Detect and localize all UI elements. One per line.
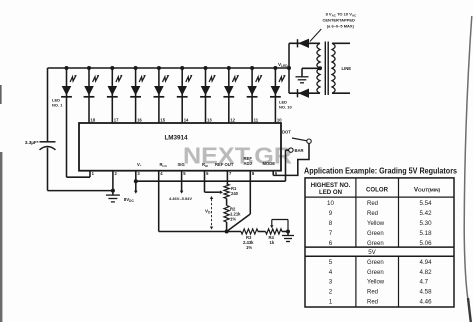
svg-text:NO. 1: NO. 1 [52, 102, 63, 107]
svg-text:5.06: 5.06 [420, 240, 433, 247]
svg-text:3: 3 [329, 279, 333, 286]
svg-text:Red: Red [367, 290, 378, 296]
svg-text:7: 7 [229, 171, 232, 176]
svg-text:5.54: 5.54 [420, 200, 433, 207]
svg-text:LM3914: LM3914 [164, 135, 188, 142]
svg-text:2: 2 [329, 289, 333, 296]
svg-text:14: 14 [184, 117, 189, 122]
svg-text:9: 9 [329, 210, 333, 217]
svg-text:NEXT.GR: NEXT.GR [183, 143, 292, 169]
svg-text:15: 15 [160, 117, 165, 122]
svg-text:Yellow: Yellow [367, 280, 385, 286]
svg-text:12: 12 [230, 117, 235, 122]
svg-text:RLO: RLO [160, 162, 168, 168]
svg-text:4.94: 4.94 [420, 259, 433, 266]
svg-text:17: 17 [114, 117, 119, 122]
svg-text:Red: Red [367, 300, 378, 306]
svg-text:4.7: 4.7 [420, 279, 429, 286]
svg-text:LINE: LINE [342, 66, 352, 71]
svg-text:5.42: 5.42 [420, 210, 433, 217]
svg-text:LED ON: LED ON [319, 189, 342, 196]
svg-text:7: 7 [329, 230, 333, 237]
svg-text:3.3µF*: 3.3µF* [25, 140, 39, 145]
svg-text:RHI: RHI [202, 162, 208, 168]
svg-text:VD: VD [205, 209, 211, 215]
svg-text:Green: Green [367, 270, 384, 276]
svg-text:11: 11 [254, 117, 259, 122]
svg-text:5: 5 [183, 171, 186, 176]
svg-text:CENTERTAPPED: CENTERTAPPED [323, 18, 355, 23]
svg-text:3: 3 [137, 171, 140, 176]
svg-text:1: 1 [329, 299, 333, 306]
svg-text:10: 10 [277, 117, 282, 122]
svg-text:COLOR: COLOR [366, 187, 389, 194]
svg-text:8: 8 [252, 171, 255, 176]
svg-text:4: 4 [329, 269, 333, 276]
svg-text:5.30: 5.30 [420, 220, 433, 227]
svg-text:Red: Red [367, 201, 378, 207]
svg-text:4.46: 4.46 [420, 299, 433, 306]
svg-text:5: 5 [329, 259, 333, 266]
svg-text:BAR: BAR [295, 148, 304, 153]
svg-text:REF OUT: REF OUT [215, 162, 234, 167]
svg-text:Green: Green [367, 241, 384, 247]
svg-text:4.46V–5.54V: 4.46V–5.54V [169, 196, 192, 201]
svg-text:5V: 5V [368, 249, 376, 256]
svg-text:VLED: VLED [278, 62, 288, 68]
svg-text:18: 18 [91, 117, 96, 122]
svg-text:(a 6–0–5 MAX): (a 6–0–5 MAX) [327, 24, 355, 29]
svg-text:4.82: 4.82 [420, 269, 433, 276]
svg-text:SIG: SIG [178, 162, 185, 167]
svg-text:Application Example: Grading 5: Application Example: Grading 5V Regulato… [304, 166, 457, 176]
svg-text:DOT: DOT [282, 130, 291, 135]
svg-text:2: 2 [115, 171, 118, 176]
svg-text:NO. 10: NO. 10 [279, 104, 292, 109]
svg-text:Yellow: Yellow [367, 221, 385, 227]
svg-text:Red: Red [367, 211, 378, 217]
svg-text:4: 4 [160, 171, 163, 176]
svg-text:6: 6 [329, 240, 333, 247]
svg-text:1k: 1k [270, 240, 275, 245]
svg-text:240: 240 [231, 191, 239, 196]
svg-text:1%: 1% [246, 245, 252, 250]
svg-text:8: 8 [329, 220, 333, 227]
svg-text:VOUT(MIN): VOUT(MIN) [414, 187, 441, 194]
svg-text:ADJ: ADJ [244, 161, 253, 166]
svg-text:HIGHEST NO.: HIGHEST NO. [311, 182, 351, 189]
svg-text:6: 6 [206, 171, 209, 176]
svg-text:13: 13 [207, 117, 212, 122]
svg-text:V+: V+ [137, 162, 142, 167]
svg-text:1: 1 [92, 171, 95, 176]
svg-text:8VDC: 8VDC [124, 197, 135, 203]
svg-text:16: 16 [137, 117, 142, 122]
svg-text:MODE: MODE [263, 161, 276, 166]
svg-text:Green: Green [367, 231, 384, 237]
svg-text:1%: 1% [230, 217, 236, 222]
svg-text:4.58: 4.58 [420, 289, 433, 296]
svg-text:8 VAC TO 10 VAC: 8 VAC TO 10 VAC [326, 12, 357, 18]
svg-text:Green: Green [367, 260, 384, 266]
svg-text:10: 10 [327, 200, 334, 207]
svg-text:5.18: 5.18 [420, 230, 433, 237]
